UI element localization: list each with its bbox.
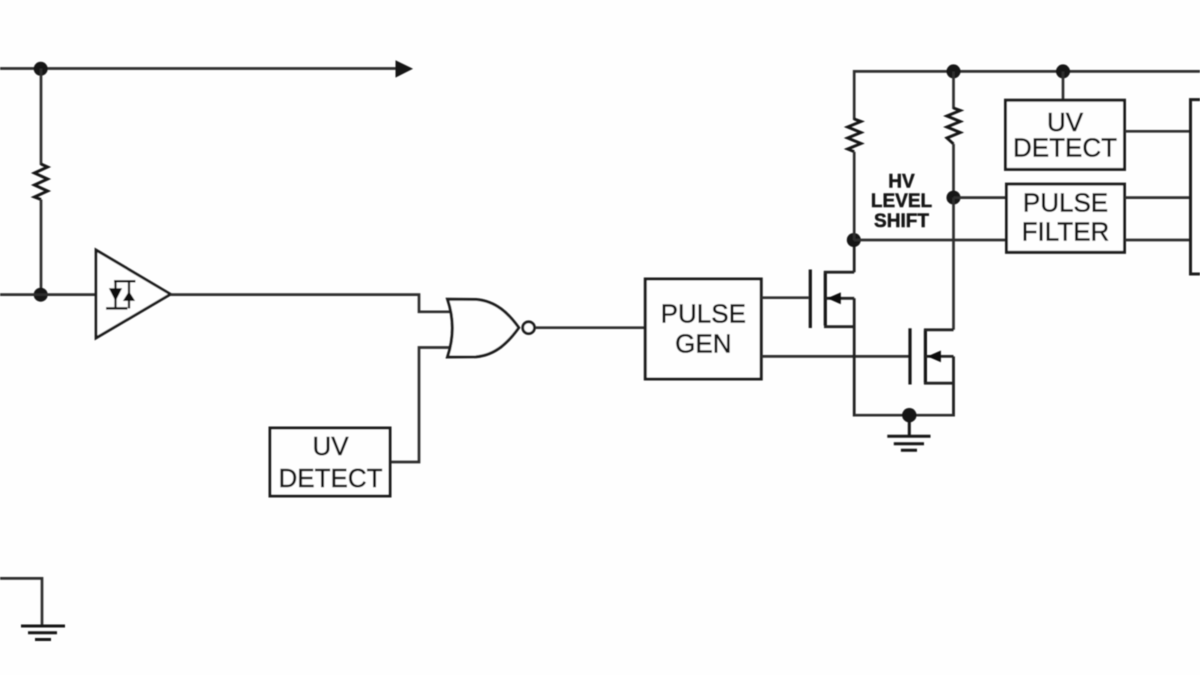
wire: HV branch vertical (top) <box>853 70 856 120</box>
svg-text:DETECT: DETECT <box>279 463 383 493</box>
wire: right branch vertical (top) <box>952 71 955 109</box>
wire: VSS lead (bottom left) <box>0 578 42 626</box>
node: junction at buffer input <box>34 288 48 302</box>
node: junction to pulse filter upper run <box>947 191 961 205</box>
transistor Q2 (low-side level shift MOSFET) <box>910 328 954 416</box>
ground (VSS) <box>21 626 65 640</box>
wire: pulse gen top output to Q1 gate <box>761 296 809 299</box>
wire: UV detect to output latch <box>1125 130 1192 133</box>
resistor R1 (input divider) <box>34 164 47 200</box>
arrowhead at end of input rail <box>396 60 414 77</box>
UV DETECT box (logic side) <box>270 428 390 496</box>
wire: common source rail <box>854 414 953 417</box>
svg-text:FILTER: FILTER <box>1022 217 1110 247</box>
node: junction of rail and divider <box>34 62 48 76</box>
wire: rail to UV detect box <box>1062 71 1065 101</box>
op-amp/buffer U1 (Schmitt trigger input buffer) <box>96 250 171 338</box>
NOR gate U2 <box>448 299 535 357</box>
ground (COM) <box>887 415 930 450</box>
wire: pulse gen bottom output to Q2 gate <box>761 355 908 358</box>
wire: top-left input rail <box>0 67 398 70</box>
output latch block (partial, clipped at right edge) <box>1191 100 1200 274</box>
UV DETECT box (high side) <box>1006 100 1125 169</box>
wire: pulse filter to output latch (lower) <box>1125 239 1192 242</box>
wire: buffer output to NOR top input <box>171 295 452 312</box>
wire: UV detect output to NOR bottom input <box>390 348 451 463</box>
wire: input lead to buffer <box>0 293 97 296</box>
resistor R3 (level shift pull-up, right) <box>947 108 960 144</box>
wire: left vertical (lower) <box>40 200 43 296</box>
node: rail junction at R3 <box>947 64 961 78</box>
wire: pulse filter to output latch (upper) <box>1125 196 1192 199</box>
transistor Q1 (high-side level shift MOSFET) <box>810 240 854 417</box>
wire: NOR output to pulse generator <box>536 326 646 329</box>
wire: right branch vertical down to Q2 drain <box>952 198 955 330</box>
label: HV LEVEL SHIFT <box>871 172 933 232</box>
wire: right branch vertical (middle) <box>952 144 955 198</box>
svg-text:HV: HV <box>888 172 915 193</box>
wire: junction to pulse filter (upper run) <box>954 196 1008 199</box>
wire: high-side top rail <box>854 70 1200 73</box>
svg-text:GEN: GEN <box>675 329 731 359</box>
wire: left vertical (upper) <box>40 69 43 166</box>
svg-text:LEVEL: LEVEL <box>871 191 933 212</box>
svg-text:UV: UV <box>312 431 349 461</box>
svg-text:DETECT: DETECT <box>1013 132 1117 162</box>
svg-text:PULSE: PULSE <box>1023 187 1108 217</box>
wire: HV branch vertical (bottom) <box>853 152 856 240</box>
PULSE GEN block <box>645 279 761 379</box>
inverter bubble of NOR gate <box>523 322 535 334</box>
resistor R2 (level shift pull-up, left) <box>848 119 861 152</box>
node: Q1 drain junction <box>847 233 861 247</box>
node: rail junction at UV detect <box>1056 64 1070 78</box>
node: ground junction <box>902 408 916 422</box>
svg-text:PULSE: PULSE <box>661 299 746 329</box>
svg-text:SHIFT: SHIFT <box>874 211 929 232</box>
PULSE FILTER box <box>1007 184 1125 252</box>
wire: junction to pulse filter (lower run) <box>854 239 1007 242</box>
